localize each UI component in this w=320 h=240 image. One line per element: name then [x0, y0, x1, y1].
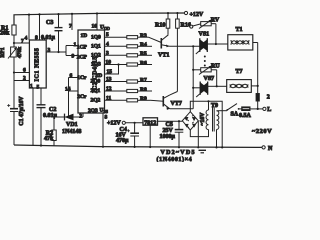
svg-text:3: 3 — [106, 50, 109, 56]
svg-text:4: 4 — [25, 36, 28, 42]
svg-text:VS1: VS1 — [199, 32, 210, 38]
node junction R1/RP1/pin7 — [13, 42, 15, 44]
wire 555 pin7 — [14, 39, 29, 45]
resistor R3 — [127, 33, 149, 39]
svg-text:VD1: VD1 — [66, 122, 78, 128]
resistor R6 — [127, 60, 152, 66]
svg-text:SA: SA — [231, 112, 239, 118]
capacitor C4 470u/16V — [116, 123, 140, 147]
wire output 1Q3 pin10 — [105, 60, 127, 66]
svg-text:1Q0: 1Q0 — [91, 34, 101, 40]
svg-text:R7: R7 — [140, 77, 147, 83]
resistor R10 — [155, 13, 170, 35]
fuse 0.5A — [239, 107, 263, 119]
wire IC2 pin2 2Q3 — [79, 113, 83, 119]
svg-text:1CP: 1CP — [77, 45, 88, 51]
svg-text:14: 14 — [65, 87, 71, 93]
resistor R5 — [127, 51, 152, 57]
terminal +12V top — [184, 11, 204, 17]
rheostat RV — [190, 17, 220, 28]
wire IC2 pin14 2Cr — [65, 87, 78, 93]
svg-text:470μ: 470μ — [116, 138, 129, 144]
transformer T1 — [216, 27, 258, 50]
terminal +12V bottom — [107, 121, 143, 127]
wire output 2Q1 pin12 — [105, 86, 127, 92]
svg-text:R6: R6 — [140, 60, 147, 66]
wire VT7 emitter — [170, 108, 193, 110]
svg-text:20k: 20k — [0, 30, 10, 36]
svg-text:1: 1 — [30, 83, 33, 89]
wire 555 pin3 output to clocks — [46, 42, 78, 60]
wire 555 pin5 — [37, 85, 42, 105]
label VD2-VD5 — [157, 150, 196, 163]
svg-text:N: N — [268, 146, 273, 152]
svg-text:4: 4 — [106, 41, 109, 47]
svg-text:+12V: +12V — [107, 121, 121, 127]
svg-text:VS7: VS7 — [204, 76, 215, 82]
resistor R8 — [127, 87, 152, 93]
wire VT1 emitter to VS1 — [169, 45, 199, 47]
resistor R9 — [127, 96, 150, 102]
svg-text:12: 12 — [106, 86, 112, 92]
resistor R4 — [127, 42, 152, 48]
svg-text:R8: R8 — [140, 87, 147, 93]
wire output 1Q2 pin3 — [105, 50, 127, 56]
terminal L — [263, 107, 271, 113]
wire 555 pin6 — [14, 68, 29, 74]
svg-text:6: 6 — [23, 68, 26, 74]
op IC1 NE555 timer — [29, 40, 46, 88]
svg-text:RU: RU — [211, 64, 220, 70]
svg-text:RV: RV — [211, 17, 220, 23]
svg-text:R4: R4 — [140, 42, 147, 48]
transformer T7 — [217, 69, 258, 93]
ground symbol — [199, 150, 207, 153]
svg-text:5: 5 — [37, 85, 40, 91]
fuse on lamp line — [256, 94, 270, 102]
svg-text:2CP: 2CP — [77, 55, 88, 61]
svg-text:VT7: VT7 — [171, 101, 182, 107]
svg-text:T7: T7 — [236, 69, 243, 75]
svg-text:VD2~VD5: VD2~VD5 — [161, 150, 196, 156]
transistor VT1 — [149, 35, 170, 59]
svg-text:0.01μ: 0.01μ — [41, 35, 56, 41]
transistor VT7 — [150, 92, 182, 110]
svg-text:1Q3: 1Q3 — [91, 62, 101, 68]
svg-text:1000μ: 1000μ — [160, 134, 176, 140]
svg-text:+12V: +12V — [190, 12, 204, 18]
svg-text:15: 15 — [107, 69, 113, 75]
wire primary top to switch — [217, 110, 228, 112]
wire VS7 anode bus — [216, 70, 218, 87]
wire 555 pin8 — [35, 14, 40, 41]
wire common MT1 line — [192, 46, 194, 109]
wire IC2 pin7 1D to rail — [69, 14, 72, 30]
svg-text:7: 7 — [69, 24, 72, 30]
potentiometer RP1 470k — [0, 43, 23, 73]
svg-text:~16V: ~16V — [200, 112, 206, 126]
wire output 1Q1 pin4 — [105, 41, 127, 47]
wire right vertical to L — [257, 43, 259, 109]
svg-text:10: 10 — [106, 60, 112, 66]
triac VS1 — [196, 32, 216, 55]
terminal N — [262, 146, 273, 152]
wire bridge AC bottom — [190, 130, 208, 137]
capacitor C1 47u/16V — [7, 73, 25, 146]
resistor R7 — [127, 77, 152, 83]
wire 555 pin1 to ground rail — [30, 83, 33, 145]
svg-text:16: 16 — [92, 24, 98, 30]
svg-text:8: 8 — [35, 35, 38, 41]
wire 555 pin4 — [25, 15, 30, 42]
svg-text:13: 13 — [106, 77, 112, 83]
svg-text:IC1 NE555: IC1 NE555 — [35, 48, 41, 82]
wire output 2Q2 pin11 — [105, 95, 127, 101]
wire output 2Q0 pin13 — [105, 77, 127, 83]
svg-text:2Q2: 2Q2 — [91, 97, 101, 103]
svg-text:T1: T1 — [236, 27, 243, 33]
bridge rectifier VD2-VD5 — [182, 112, 198, 130]
svg-text:1Cr: 1Cr — [77, 75, 87, 81]
wire bridge minus to rail — [197, 121, 199, 148]
svg-text:C3: C3 — [46, 20, 53, 26]
svg-text:2Q0: 2Q0 — [91, 79, 101, 85]
svg-text:2: 2 — [267, 95, 270, 101]
wire IC2 pin16 VDD to rail — [92, 14, 110, 32]
svg-text:1Q2: 1Q2 — [91, 52, 101, 58]
transformer T9 — [200, 101, 219, 147]
svg-text:2: 2 — [79, 113, 82, 119]
ground rail — [14, 145, 262, 147]
svg-text:R16: R16 — [181, 23, 191, 29]
svg-text:1D: 1D — [81, 33, 88, 39]
svg-text:2Cr: 2Cr — [77, 94, 87, 100]
wire 555 pin2 — [14, 76, 29, 82]
resistor R2 47k — [44, 117, 56, 146]
wire bridge AC top — [190, 101, 222, 147]
svg-text:0.01μ: 0.01μ — [43, 113, 58, 119]
capacitor C3 0.01u — [41, 14, 63, 52]
svg-text:1Q1: 1Q1 — [91, 43, 101, 49]
svg-text:47k: 47k — [44, 136, 54, 142]
node junction RP1/C1/pin6 — [13, 71, 15, 73]
svg-text:R9: R9 — [140, 96, 147, 102]
svg-text:470k: 470k — [17, 46, 23, 58]
svg-text:R5: R5 — [140, 51, 147, 57]
capacitor C5 1000u/25V — [160, 121, 184, 147]
svg-text:VT1: VT1 — [158, 53, 169, 59]
svg-text:3: 3 — [48, 48, 51, 54]
triac VS7 — [193, 76, 217, 97]
wire 1Q3 to 2D pin15 loop — [105, 65, 119, 76]
wire 7812 input from bridge — [158, 120, 183, 122]
svg-text:~220V: ~220V — [252, 128, 272, 135]
op IC2 CD4015 shift register — [77, 30, 108, 114]
switch SA — [226, 104, 241, 118]
diode VD1 1N4148 — [54, 114, 83, 135]
resistor R16 — [176, 13, 191, 91]
svg-text:9: 9 — [72, 54, 75, 60]
wire IC2 pin8 USS to ground rail — [103, 113, 108, 147]
svg-text:6: 6 — [70, 73, 73, 79]
svg-text:0.5A: 0.5A — [239, 113, 252, 119]
svg-text:5: 5 — [106, 32, 109, 38]
wire top +12V rail — [14, 13, 184, 25]
svg-text:2: 2 — [23, 76, 26, 82]
svg-text:11: 11 — [106, 95, 111, 101]
svg-text:2Q3: 2Q3 — [88, 108, 98, 114]
wire output 1Q0 pin5 — [105, 32, 127, 38]
svg-text:RP1: RP1 — [0, 47, 6, 57]
svg-text:2Q1: 2Q1 — [91, 88, 101, 94]
rheostat RU — [193, 64, 220, 75]
svg-text:DD: DD — [104, 26, 110, 31]
repetition dots — [204, 56, 206, 58]
svg-text:(1N4001)×4: (1N4001)×4 — [157, 156, 193, 162]
svg-text:C1 47μ/16V: C1 47μ/16V — [19, 96, 25, 126]
svg-text:R3: R3 — [140, 33, 147, 39]
wire IC2 pin6 1Cr — [69, 73, 79, 79]
wire reset bus — [68, 78, 70, 118]
resistor R1 — [0, 25, 16, 43]
capacitor C2 0.01u — [37, 105, 58, 146]
regulator 7812 — [143, 118, 158, 147]
wire VS1 anode bus — [215, 24, 217, 44]
svg-text:R10: R10 — [155, 23, 165, 29]
svg-text:L: L — [267, 107, 271, 113]
svg-text:SS: SS — [104, 109, 108, 114]
svg-text:1N4148: 1N4148 — [62, 129, 81, 135]
